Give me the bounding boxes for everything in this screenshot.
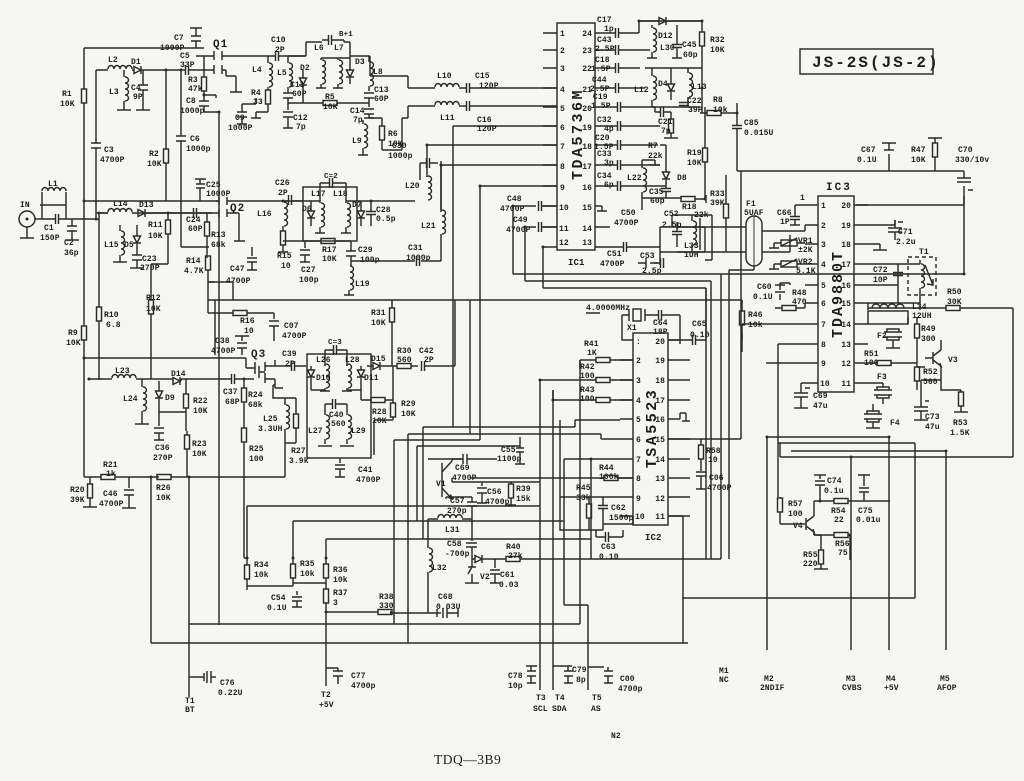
resistor R47 (911, 138, 942, 168)
svg-text:R58: R58 (706, 447, 721, 456)
svg-text:1: 1 (560, 30, 565, 39)
svg-text:C9: C9 (235, 114, 245, 123)
svg-text:M5: M5 (940, 675, 950, 684)
svg-text:5.1K: 5.1K (796, 267, 816, 276)
capacitor C38b (211, 336, 249, 356)
svg-text:C17: C17 (597, 16, 612, 25)
svg-text:18P: 18P (653, 328, 668, 337)
wire SCL bus (539, 380, 541, 390)
svg-text:9: 9 (560, 184, 565, 193)
svg-text:R39: R39 (516, 485, 531, 494)
wire U3 pin7 left (742, 324, 805, 352)
svg-text:13: 13 (841, 341, 851, 350)
svg-text:1500p: 1500p (609, 514, 634, 523)
resistor R16 (208, 300, 274, 336)
svg-text:10: 10 (820, 380, 830, 389)
svg-text:VR1: VR1 (798, 237, 813, 246)
svg-text:0.1U: 0.1U (753, 293, 773, 302)
svg-text:AS: AS (591, 705, 601, 714)
svg-text:D5: D5 (124, 241, 134, 250)
svg-text:1000P: 1000P (228, 124, 253, 133)
wire Q1 filter block (225, 56, 408, 150)
svg-text:10K: 10K (323, 103, 338, 112)
svg-text:1.5P: 1.5P (591, 102, 611, 111)
svg-text:L26: L26 (316, 356, 331, 365)
capacitor C8 (180, 95, 219, 625)
terminal T1 BT (185, 697, 195, 715)
svg-text:C13: C13 (374, 86, 389, 95)
transistor V1 (436, 459, 461, 499)
capacitor C57 (446, 497, 477, 519)
resistor R50 (868, 288, 1013, 457)
wire V1 collector row (452, 478, 540, 482)
svg-text:R27: R27 (291, 447, 306, 456)
svg-text:60P: 60P (188, 225, 203, 234)
svg-text:X1: X1 (627, 324, 637, 333)
wire nested right y437 (767, 436, 889, 438)
svg-text:2P: 2P (278, 189, 288, 198)
inductor L6 (314, 44, 326, 88)
svg-text:22k: 22k (694, 211, 709, 220)
svg-text:60P: 60P (292, 90, 307, 99)
svg-text:0.5p: 0.5p (376, 215, 396, 224)
svg-text:10k: 10k (333, 576, 348, 585)
resistor R31 (371, 300, 395, 366)
svg-text:R52: R52 (923, 368, 938, 377)
svg-text:L28: L28 (345, 356, 360, 365)
svg-text:R37: R37 (333, 589, 348, 598)
svg-text:16: 16 (841, 282, 851, 291)
svg-text:22: 22 (834, 516, 844, 525)
svg-text:L2: L2 (108, 56, 118, 65)
inductor L18 (333, 190, 351, 233)
inductor L30 (647, 25, 675, 58)
resistor R43 (553, 386, 633, 404)
capacitor C12 (283, 103, 308, 132)
inductor L7 (333, 44, 344, 88)
inductor L17 (311, 190, 326, 233)
svg-text:C33: C33 (597, 150, 612, 159)
svg-text:10k: 10k (254, 571, 269, 580)
wire nested rail y288 (543, 288, 706, 559)
capacitor C18 (591, 56, 640, 74)
capacitor C60 (753, 283, 790, 302)
capacitor C7 (160, 28, 202, 53)
capacitor C66 (777, 205, 805, 227)
resistor R4 (251, 89, 271, 118)
svg-text:120P: 120P (477, 125, 497, 134)
capacitor C47 (226, 247, 257, 286)
U1 pin numbers left (559, 30, 569, 248)
svg-text:20: 20 (841, 202, 851, 211)
svg-text:C26: C26 (275, 179, 290, 188)
wire vertical x151 (150, 477, 152, 643)
svg-text:1K: 1K (587, 349, 597, 358)
svg-text:0.1U: 0.1U (857, 156, 877, 165)
svg-text:L20: L20 (405, 182, 420, 191)
svg-text:VR2: VR2 (798, 258, 813, 267)
svg-text:5: 5 (821, 282, 826, 291)
svg-text:BT: BT (185, 706, 195, 715)
svg-text:10: 10 (708, 456, 718, 465)
IC U3 TDA9880T (818, 196, 854, 392)
svg-text:10: 10 (244, 327, 254, 336)
svg-text:10K: 10K (401, 410, 416, 419)
resistor R5 (288, 93, 369, 112)
svg-text:100: 100 (249, 455, 264, 464)
svg-text:60p: 60p (683, 51, 698, 60)
svg-text:4700p: 4700p (618, 685, 643, 694)
terminal T3 SCL (533, 390, 548, 714)
svg-text:L21: L21 (421, 222, 436, 231)
svg-text:R50: R50 (947, 288, 962, 297)
svg-text:C34: C34 (597, 172, 612, 181)
resistor R25 (242, 428, 264, 530)
filter F3 (868, 373, 892, 404)
svg-text:3: 3 (821, 241, 826, 250)
capacitor C49 (506, 216, 557, 281)
svg-text:L22: L22 (627, 174, 642, 183)
svg-text:C10: C10 (271, 36, 286, 45)
capacitor C26 (240, 179, 302, 205)
resistor R52 (915, 367, 938, 390)
svg-text:D8: D8 (677, 174, 687, 183)
svg-text:L10: L10 (437, 72, 452, 81)
svg-text:R26: R26 (156, 484, 171, 493)
svg-text:R53: R53 (953, 419, 968, 428)
svg-text:2.5p: 2.5p (642, 267, 662, 276)
svg-text:CVBS: CVBS (842, 684, 862, 693)
svg-text:M1: M1 (719, 667, 729, 676)
wire M3 rail y457 (780, 456, 1013, 458)
svg-text:47k: 47k (188, 85, 203, 94)
capacitor C69 (794, 385, 828, 411)
resistor R6 (369, 118, 403, 150)
svg-text:R11: R11 (148, 221, 163, 230)
svg-text:14: 14 (655, 456, 665, 465)
wire U1 pin8 drop (441, 165, 557, 212)
svg-text:R44: R44 (599, 464, 614, 473)
resistor R46 (740, 300, 763, 340)
potentiometer VR2 (769, 258, 816, 276)
capacitor C3 (91, 70, 125, 219)
resistor R22 (184, 379, 208, 431)
svg-text:10K: 10K (60, 100, 75, 109)
svg-text:C8: C8 (186, 97, 196, 106)
svg-text:150P: 150P (40, 234, 60, 243)
wire F1 to IC1 (677, 227, 746, 252)
svg-text:L13: L13 (692, 83, 707, 92)
svg-text:4700P: 4700P (600, 260, 625, 269)
svg-text:C06: C06 (709, 474, 724, 483)
svg-text:2P: 2P (275, 46, 285, 55)
filter F2 (877, 329, 902, 348)
svg-text:C41: C41 (358, 466, 373, 475)
svg-text:3.9k: 3.9k (289, 457, 309, 466)
svg-text:C47: C47 (230, 265, 245, 274)
svg-text:0.03: 0.03 (499, 581, 519, 590)
svg-text:C51: C51 (607, 250, 622, 259)
wire U1 pin6 drop (453, 126, 557, 427)
svg-text:C63: C63 (601, 543, 616, 552)
capacitor C79 (553, 666, 587, 685)
wire U1 pin7 drop (427, 145, 557, 177)
svg-text:9: 9 (636, 495, 641, 504)
diode D14 (171, 370, 186, 385)
svg-text:10: 10 (635, 513, 645, 522)
svg-text:T5: T5 (592, 694, 602, 703)
wire R1 top row (84, 200, 219, 202)
svg-text:C49: C49 (513, 216, 528, 225)
svg-text:R49: R49 (921, 325, 936, 334)
capacitor C15 (463, 72, 557, 93)
svg-text:N2: N2 (611, 732, 621, 741)
svg-text:100p: 100p (299, 276, 319, 285)
varicap D11 (347, 366, 379, 400)
svg-text:6: 6 (636, 436, 641, 445)
capacitor C77 (326, 668, 376, 691)
svg-text:330/10v: 330/10v (955, 156, 989, 165)
resistor R28 (361, 398, 393, 427)
svg-text:L19: L19 (355, 280, 370, 289)
capacitor C85 (732, 113, 774, 171)
resistor R20 (70, 477, 97, 507)
svg-text:R22: R22 (193, 397, 208, 406)
resistor R19 (687, 123, 708, 199)
svg-text:4700P: 4700P (282, 332, 307, 341)
wire vertical x189 T1 (188, 477, 190, 697)
svg-text:33P: 33P (180, 61, 195, 70)
inductor L19 (344, 266, 370, 295)
capacitor C72 (873, 264, 903, 285)
svg-text:IN: IN (20, 201, 30, 210)
svg-text:JS-2S(JS-2): JS-2S(JS-2) (812, 54, 940, 72)
svg-text:C31: C31 (408, 244, 423, 253)
svg-text:33: 33 (253, 98, 263, 107)
wire AS bus (564, 459, 591, 610)
svg-text:C36: C36 (155, 444, 170, 453)
transistor V4 (793, 501, 814, 535)
wire U1 pin12 drop (542, 247, 544, 288)
inductor L15 (104, 225, 127, 262)
svg-text:C=2: C=2 (324, 173, 338, 181)
svg-text:7p: 7p (296, 123, 306, 132)
capacitor C75 (856, 475, 881, 525)
U3 pin numbers right (841, 202, 851, 389)
capacitor C46 (99, 477, 136, 509)
resistor R58 (699, 445, 721, 471)
inductor L27 (308, 404, 332, 446)
svg-text:L9: L9 (352, 137, 362, 146)
wire U3 pin10 (801, 383, 805, 385)
svg-text:D3: D3 (355, 58, 365, 67)
wire nested rail y274 (513, 196, 964, 559)
svg-text:C11: C11 (290, 81, 305, 90)
capacitor C33 (597, 150, 660, 170)
svg-text:1000p: 1000p (186, 145, 211, 154)
svg-text:0.22U: 0.22U (218, 689, 243, 698)
capacitor C=2 (320, 173, 346, 201)
svg-text:68P: 68P (225, 398, 240, 407)
svg-text:C65: C65 (692, 320, 707, 329)
capacitor C34 (597, 172, 660, 191)
svg-text:-700p: -700p (445, 550, 470, 559)
svg-text:C85: C85 (744, 119, 759, 128)
resistor R27 (289, 398, 309, 466)
svg-text:C74: C74 (827, 477, 842, 486)
svg-text:R43: R43 (580, 386, 595, 395)
svg-text:R55: R55 (803, 551, 818, 560)
resistor R18 (681, 195, 709, 220)
svg-text:R14: R14 (186, 257, 201, 266)
capacitor C50 (597, 206, 639, 228)
svg-text:R13: R13 (211, 231, 226, 240)
svg-text:C42: C42 (419, 347, 434, 356)
svg-text:IC3: IC3 (826, 182, 852, 194)
resistor R29 (374, 366, 416, 455)
svg-text:10K: 10K (156, 494, 171, 503)
svg-text:7: 7 (560, 143, 565, 152)
svg-text:1P: 1P (780, 218, 790, 227)
svg-text:2: 2 (821, 222, 826, 231)
svg-text:TDQ—3B9: TDQ—3B9 (434, 752, 501, 767)
wire rail y446 (417, 446, 520, 521)
svg-text:C76: C76 (220, 679, 235, 688)
svg-text:10: 10 (281, 262, 291, 271)
capacitor C28 (366, 201, 396, 226)
wire M5 drop (945, 451, 947, 650)
svg-text:R36: R36 (333, 566, 348, 575)
capacitor C69b (428, 454, 497, 483)
svg-text:1: 1 (800, 194, 805, 203)
svg-text:±2K: ±2K (798, 246, 813, 255)
inductor L34 (868, 303, 932, 324)
svg-text:D13: D13 (139, 201, 154, 210)
svg-text:R25: R25 (249, 445, 264, 454)
svg-text:L12: L12 (634, 86, 649, 95)
svg-text:C37: C37 (223, 388, 238, 397)
svg-text:3: 3 (636, 377, 641, 386)
svg-text:C45: C45 (682, 41, 697, 50)
svg-text:L30: L30 (660, 44, 675, 53)
svg-text:120P: 120P (479, 82, 499, 91)
svg-text:R54: R54 (831, 507, 846, 516)
svg-text:L6: L6 (314, 44, 324, 53)
svg-text:17: 17 (655, 397, 665, 406)
resistor R12 (146, 234, 168, 379)
svg-text:C28: C28 (376, 206, 391, 215)
title box JS-2S(JS-2) (800, 49, 940, 74)
svg-text:C70: C70 (958, 146, 973, 155)
svg-text:7: 7 (636, 456, 641, 465)
svg-text:15: 15 (582, 204, 592, 213)
svg-text:IC1: IC1 (568, 258, 585, 268)
capacitor C24 (168, 208, 212, 234)
capacitor C62 (598, 497, 634, 530)
inductor L21 (421, 161, 446, 261)
svg-text:C15: C15 (475, 72, 490, 81)
svg-text:R51: R51 (864, 350, 879, 359)
transistor Q3 (246, 349, 283, 388)
svg-text:4: 4 (560, 86, 565, 95)
svg-text:1: 1 (821, 202, 826, 211)
resistor R57 (778, 497, 803, 524)
svg-text:T2: T2 (321, 691, 331, 700)
diode D12 (639, 17, 702, 25)
resistor R44 (470, 464, 633, 482)
capacitor C30 (388, 142, 438, 180)
svg-text:6: 6 (821, 300, 826, 309)
resistor R34 (245, 561, 269, 586)
svg-text:4.0000MHz: 4.0000MHz (586, 304, 630, 313)
svg-text:39K: 39K (70, 496, 85, 505)
varicap D10 (307, 366, 331, 390)
svg-text:3.3UH: 3.3UH (258, 425, 283, 434)
svg-text:D10: D10 (316, 374, 331, 383)
IC U2 TSA5523 (633, 333, 668, 525)
svg-text:+5V: +5V (319, 701, 334, 710)
svg-text:23: 23 (582, 47, 592, 56)
wire L12-L13 block (645, 68, 702, 107)
capacitor C42 (419, 300, 455, 371)
svg-text:7p: 7p (353, 116, 363, 125)
svg-text:19: 19 (655, 357, 665, 366)
inductor L5 (277, 56, 293, 91)
resistor R1 (60, 48, 87, 201)
svg-text:6.8: 6.8 (106, 321, 121, 330)
svg-text:R47: R47 (911, 146, 926, 155)
svg-text:C50: C50 (621, 209, 636, 218)
capacitor C43 (595, 36, 650, 55)
capacitor C39 (275, 350, 306, 371)
inductor L20 (405, 176, 432, 200)
svg-text:15k: 15k (516, 495, 531, 504)
resistor R26 (156, 475, 285, 504)
capacitor C67 (857, 143, 896, 165)
capacitor C=3 (325, 339, 347, 366)
svg-text:R19: R19 (687, 149, 702, 158)
varicap D7 (352, 201, 365, 226)
resistor R11 (148, 213, 171, 241)
capacitor C41 (335, 458, 381, 485)
resistor R17 (283, 239, 351, 265)
svg-text:300: 300 (921, 335, 936, 344)
svg-text:SCL: SCL (533, 705, 548, 714)
svg-text:D11: D11 (364, 374, 379, 383)
svg-text:V2: V2 (480, 573, 490, 582)
capacitor C71 (888, 220, 916, 247)
svg-text:8: 8 (560, 163, 565, 172)
svg-text:R8: R8 (713, 96, 723, 105)
svg-text:C61: C61 (500, 571, 515, 580)
resistor R24 (242, 379, 263, 428)
svg-text:0.1U: 0.1U (267, 604, 287, 613)
inductor L13 (688, 68, 707, 102)
wire nested right y443 (778, 442, 915, 444)
svg-text:4700P: 4700P (211, 347, 236, 356)
svg-text:T1: T1 (919, 248, 929, 257)
wire F1 column x756 (668, 171, 741, 445)
svg-text:C75: C75 (858, 507, 873, 516)
inductor L28 (342, 356, 360, 391)
svg-text:4700P: 4700P (614, 219, 639, 228)
wire U3 pin15 to L34 (868, 303, 920, 324)
resistor R49 (915, 317, 936, 352)
potentiometer VR1 (769, 237, 813, 255)
resistor R21 (84, 461, 159, 480)
svg-text:18: 18 (841, 241, 851, 250)
resistor R23 (185, 431, 207, 477)
